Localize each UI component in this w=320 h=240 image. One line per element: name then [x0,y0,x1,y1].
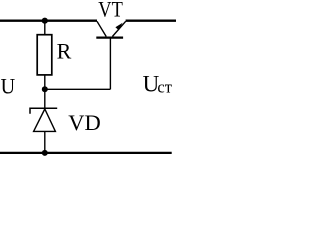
wire R top lead [44,21,46,35]
svg-text:VD: VD [68,110,101,135]
node junction dot middle (R / VD / VT base) [42,86,48,92]
wire top rail right (VT emitter to output) [126,20,176,22]
wire base horizontal segment [45,88,111,90]
resistor R [37,35,52,75]
zener VD triangle [34,109,56,131]
wire VD bottom lead [44,131,46,153]
wire R bottom lead [44,75,46,89]
transistor VT emitter arrowhead [115,23,122,31]
node junction dot top (rail / R) [42,18,48,24]
svg-text:R: R [57,38,72,63]
transistor VT collector lead [97,21,106,36]
svg-text:VT: VT [98,0,123,22]
wire base vertical segment [109,38,111,90]
zener VD cathode bar [30,108,57,113]
wire VD top lead [44,89,46,109]
node junction dot bottom (rail / VD) [42,150,48,156]
svg-text:U: U [1,74,16,99]
wire bottom rail [0,152,172,154]
transistor VT base bar [96,36,123,38]
wire top rail left (input to VT collector) [0,20,97,22]
transistor VT emitter lead [112,21,125,36]
